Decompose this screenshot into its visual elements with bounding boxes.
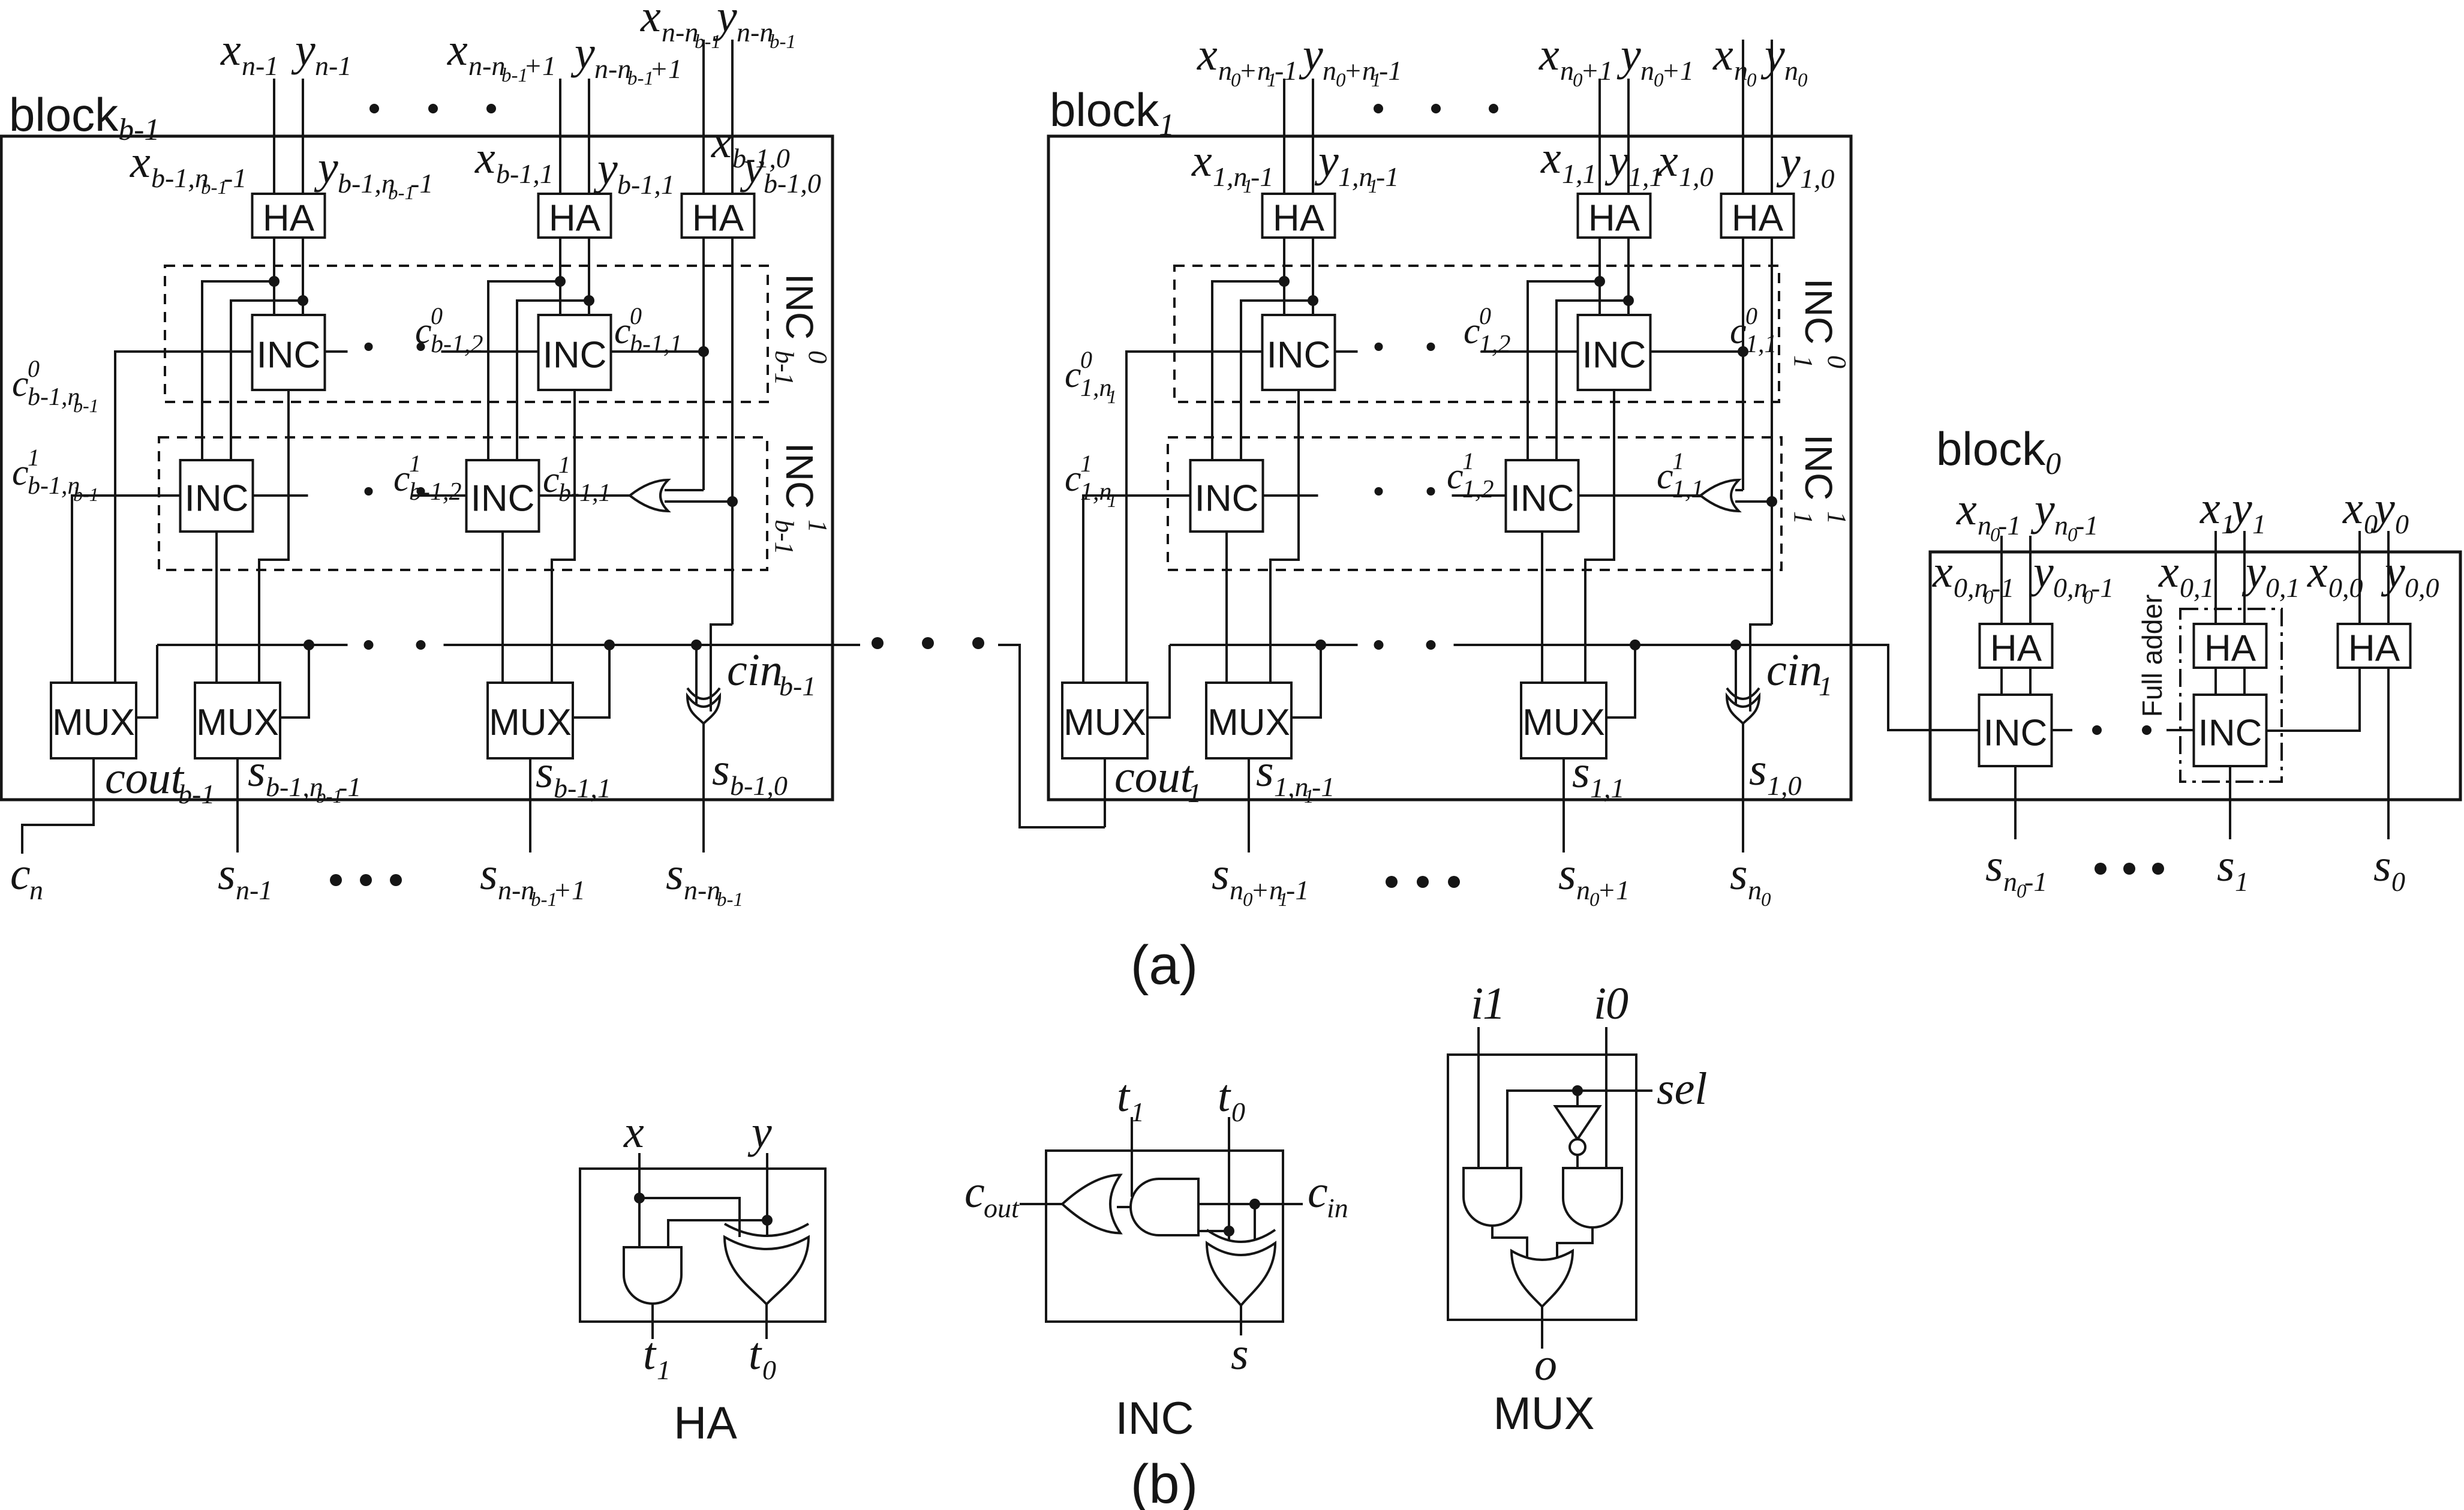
svg-text:s: s: [248, 746, 266, 796]
wire t0 col1 to INC1 block_1: [1241, 301, 1313, 460]
svg-text:t: t: [1117, 1071, 1131, 1121]
svg-text:c: c: [1464, 311, 1480, 352]
svg-text:1: 1: [1789, 355, 1818, 368]
incrementer INC0 col2 block_b-1: [539, 315, 611, 390]
svg-text:y: y: [2029, 547, 2054, 597]
svg-text:HA: HA: [549, 198, 601, 239]
svg-text:b-1,1: b-1,1: [617, 169, 675, 200]
MUX detail box: [1448, 1055, 1636, 1320]
svg-text:0,1: 0,1: [2265, 572, 2300, 603]
svg-text:x: x: [474, 133, 495, 183]
wire s_1 output: [2229, 766, 2231, 839]
wire cin_1 from block_0: [1851, 645, 1979, 730]
wire t0 col2 to INC1 block_1: [1556, 301, 1628, 460]
wire y input col2 block_b-1: [588, 79, 590, 194]
svg-text:1: 1: [1080, 450, 1092, 477]
junction t0 OR input block_b-1: [727, 496, 738, 507]
svg-text:y: y: [1760, 29, 1785, 80]
svg-text:HA: HA: [674, 1398, 737, 1449]
svg-text:c: c: [1730, 311, 1747, 352]
junction t0 col1 block_1: [1308, 295, 1318, 306]
svg-text:s: s: [1985, 840, 2003, 891]
svg-text:n-n: n-n: [684, 875, 720, 905]
wire sel MUX cout block_1: [1147, 645, 1170, 718]
junction t1 col2 block_b-1: [555, 276, 566, 287]
svg-text:-1: -1: [1991, 572, 2014, 603]
svg-text:c: c: [1657, 456, 1673, 497]
svg-text:INC: INC: [1267, 335, 1331, 376]
svg-text:INC: INC: [2198, 713, 2262, 754]
full adder dash-dot box block_0: [2180, 609, 2282, 782]
half adder HA col3 block_1: [1721, 194, 1794, 238]
junction t0 col2 block_b-1: [584, 295, 594, 306]
svg-text:1: 1: [657, 1355, 671, 1385]
svg-text:x: x: [447, 25, 468, 75]
wire x input col2 block_b-1: [559, 79, 561, 194]
svg-text:b-1: b-1: [770, 350, 799, 386]
junction sel MUX bit1 block_b-1: [604, 640, 615, 650]
svg-text:c: c: [12, 364, 29, 404]
svg-text:c: c: [393, 458, 410, 499]
junction cin INC detail: [1249, 1199, 1260, 1209]
half adder HA col2 block_1: [1578, 194, 1651, 238]
svg-text:b-1,2: b-1,2: [409, 478, 462, 506]
wire t0 to AND INC detail: [1198, 1230, 1229, 1232]
svg-text:y: y: [1776, 137, 1801, 188]
svg-text:b-1,n: b-1,n: [266, 771, 323, 802]
svg-text:1,0: 1,0: [1800, 163, 1835, 194]
svg-text:y: y: [747, 1107, 772, 1157]
svg-text:MUX: MUX: [1494, 1388, 1595, 1439]
wire c1 chain OR to INC1 col2 block_b-1: [539, 494, 630, 497]
svg-text:b-1,1: b-1,1: [630, 331, 683, 358]
svg-text:+1: +1: [1661, 55, 1694, 86]
cin bus segment B block_1: [1454, 644, 1852, 646]
svg-text:1,1: 1,1: [1745, 331, 1777, 358]
svg-text:n-n: n-n: [498, 875, 534, 905]
svg-text:y: y: [1314, 136, 1339, 186]
svg-text:0: 0: [431, 302, 443, 329]
svg-text:1: 1: [28, 444, 40, 471]
svg-text:x: x: [2158, 547, 2179, 597]
INC0 row dashed box block_1: [1174, 266, 1779, 402]
label INC0 b-1 rotated: [770, 274, 833, 386]
and gate INC detail: [1131, 1179, 1198, 1235]
svg-text:1,0: 1,0: [1767, 770, 1802, 801]
svg-text:s: s: [1231, 1329, 1249, 1379]
svg-text:0: 0: [2391, 866, 2405, 897]
junction sel MUX high block_1: [1315, 640, 1326, 650]
svg-text:n: n: [2003, 866, 2017, 897]
wire cin to XOR INC detail: [1254, 1204, 1256, 1239]
wire sel MUX cout block_b-1: [136, 645, 157, 718]
svg-text:block1: block1: [1050, 83, 1174, 142]
svg-text:y: y: [2030, 484, 2055, 535]
svg-text:1: 1: [1819, 671, 1832, 701]
svg-text:1,n: 1,n: [1274, 771, 1309, 802]
svg-text:1: 1: [409, 450, 421, 477]
svg-text:s: s: [536, 747, 554, 797]
wire INC1 col2 sum to MUX block_1: [1541, 532, 1543, 683]
svg-text:s: s: [712, 745, 730, 795]
svg-text:1,n: 1,n: [1338, 161, 1373, 192]
wire c1 chain col1-col2 right block_1: [1452, 494, 1506, 497]
svg-text:in: in: [1327, 1193, 1348, 1223]
wire t0 HA1 to INC0 block_1: [1312, 238, 1314, 315]
svg-text:cout: cout: [1114, 752, 1194, 802]
wire x input HA detail: [638, 1153, 641, 1247]
wire s_n0-1 output: [2014, 766, 2017, 839]
wire y input HA detail: [766, 1153, 768, 1237]
wire XOR output s bit0 block_1: [1742, 724, 1744, 852]
svg-text:HA: HA: [1990, 628, 2042, 670]
half adder HA col1 block_0: [1980, 624, 2053, 668]
svg-text:b-1,0: b-1,0: [764, 168, 821, 199]
svg-text:0: 0: [1798, 70, 1808, 91]
svg-text:x: x: [130, 137, 151, 187]
wire x input col2 block_1: [1598, 79, 1601, 194]
svg-text:c: c: [1065, 355, 1081, 395]
half adder HA col1 block_b-1: [253, 194, 325, 238]
wire carry from HA bit0 block_0: [2266, 668, 2360, 731]
svg-text:t: t: [1218, 1071, 1231, 1121]
svg-text:s: s: [1572, 747, 1590, 797]
wire t1 HA-FA to INC block_0: [2214, 668, 2217, 695]
wire o output MUX detail: [1541, 1307, 1543, 1349]
svg-text:1: 1: [1107, 490, 1117, 511]
svg-text:c: c: [1065, 458, 1081, 499]
multiplexer MUX high sum block_1: [1206, 683, 1291, 758]
ellipsis c1 chain block_b-1: [365, 487, 373, 496]
svg-text:cin: cin: [1766, 645, 1822, 695]
incrementer INC full-adder block_0: [2194, 695, 2267, 766]
and gate i1 MUX detail: [1464, 1168, 1521, 1226]
svg-text:1: 1: [1789, 511, 1818, 524]
wire INC1 col2 sum to MUX block_b-1: [501, 532, 504, 683]
svg-text:INC: INC: [471, 478, 535, 520]
ellipsis outputs block_0: [2095, 863, 2107, 875]
svg-text:out: out: [984, 1193, 1020, 1223]
svg-text:i: i: [1471, 978, 1483, 1029]
wire c1 chain cout block_b-1: [72, 496, 181, 683]
wire c0 chain col1-col2 left block_1: [1335, 350, 1358, 353]
svg-text:b-1,1: b-1,1: [558, 479, 611, 507]
wire sel MUX bit1 block_b-1: [573, 645, 609, 718]
svg-text:s: s: [1212, 849, 1230, 899]
multiplexer MUX high sum block_b-1: [195, 683, 280, 758]
svg-text:x: x: [2307, 547, 2328, 597]
svg-text:-1: -1: [338, 771, 361, 802]
svg-text:0: 0: [1747, 70, 1757, 91]
svg-text:sel: sel: [1657, 1064, 1707, 1114]
wire carry chain right block_0: [2166, 729, 2194, 731]
wire x input col3 block_b-1: [702, 40, 705, 194]
wire MUX high sum output block_1: [1248, 758, 1250, 852]
label Full adder rotated: [2137, 595, 2168, 718]
wire y input col1 block_b-1: [302, 79, 304, 194]
svg-text:-1: -1: [1275, 55, 1297, 86]
wire t1 col2 to INC1 block_1: [1528, 281, 1600, 460]
and gate HA detail: [624, 1247, 681, 1304]
svg-text:HA: HA: [2348, 628, 2400, 670]
xor gate s bit0 block_1: [1735, 645, 1737, 704]
svg-text:n: n: [1560, 55, 1574, 86]
svg-text:INC: INC: [1582, 335, 1646, 376]
wire INC0 col1 sum to MUX block_b-1: [259, 390, 289, 683]
svg-text:b-1,2: b-1,2: [431, 331, 483, 358]
svg-text:MUX: MUX: [1207, 702, 1290, 743]
wire cout_b-1 to c_n: [22, 758, 94, 854]
svg-text:1,2: 1,2: [1479, 331, 1511, 358]
svg-text:n: n: [1218, 55, 1232, 86]
svg-text:INC: INC: [1797, 278, 1840, 344]
wire i1 input MUX detail: [1477, 1027, 1480, 1168]
wire OR top input block_1: [1735, 489, 1743, 491]
wire OR bottom input block_1: [1735, 500, 1772, 503]
multiplexer MUX bit1 sum block_1: [1521, 683, 1606, 758]
svg-text:x: x: [220, 25, 241, 75]
wire sel MUX high block_1: [1291, 645, 1321, 718]
wire OR top input block_b-1: [665, 489, 704, 491]
svg-text:b-1: b-1: [779, 671, 816, 701]
svg-text:+1: +1: [650, 53, 682, 84]
svg-text:HA: HA: [2204, 628, 2256, 670]
wire sel MUX high block_b-1: [280, 645, 309, 718]
wire c1 chain OR to INC1 col2 block_1: [1579, 494, 1701, 497]
svg-text:y: y: [291, 25, 315, 75]
wire s_0 output: [2387, 668, 2390, 839]
ellipsis outputs block_b-1: [330, 874, 342, 886]
svg-text:o: o: [1534, 1340, 1557, 1390]
svg-text:n-1: n-1: [242, 50, 278, 81]
and gate i0 MUX detail: [1563, 1168, 1622, 1227]
wire t1 HA2 to INC0 block_1: [1598, 238, 1601, 315]
wire t1 HA1 to INC0 block_1: [1283, 238, 1285, 315]
svg-text:0: 0: [630, 302, 642, 329]
block_1 border: [1048, 136, 1851, 800]
svg-text:i: i: [1594, 978, 1606, 1029]
svg-text:HA: HA: [1732, 198, 1784, 239]
svg-text:n-n: n-n: [468, 50, 505, 81]
svg-text:MUX: MUX: [489, 702, 572, 743]
wire sel MUX detail: [1507, 1091, 1652, 1168]
junction cin XOR tap block_b-1: [691, 640, 702, 650]
svg-text:1,2: 1,2: [1462, 476, 1494, 503]
svg-text:x: x: [1197, 29, 1218, 80]
wire INC0 col2 sum to MUX block_1: [1585, 390, 1614, 683]
cin bus segment B block_b-1: [444, 644, 861, 646]
svg-text:x: x: [1932, 547, 1953, 597]
svg-text:0: 0: [1080, 346, 1092, 373]
svg-text:s: s: [218, 849, 236, 899]
svg-text:0: 0: [1822, 355, 1852, 368]
wire AND2 to OR MUX detail: [1557, 1227, 1592, 1259]
wire c0 chain col2-col3 block_1: [1651, 350, 1744, 353]
multiplexer MUX bit1 sum block_b-1: [488, 683, 573, 758]
svg-text:0: 0: [803, 350, 833, 364]
svg-text:1: 1: [803, 520, 833, 533]
wire c1 chain cout block_1: [1083, 496, 1191, 683]
wire t0 col2 to INC1 block_b-1: [517, 301, 589, 460]
svg-text:b-1: b-1: [770, 31, 796, 53]
svg-text:c: c: [1447, 456, 1464, 497]
wire y to AND HA detail: [668, 1220, 767, 1247]
svg-text:0,0: 0,0: [2328, 572, 2363, 603]
junction t0 col2 block_1: [1623, 295, 1634, 306]
multiplexer MUX cout block_b-1: [51, 683, 136, 758]
half adder HA full-adder block_0: [2194, 624, 2267, 668]
svg-text:y: y: [2381, 547, 2405, 597]
svg-text:n: n: [1640, 55, 1654, 86]
svg-text:0,n: 0,n: [2053, 572, 2088, 603]
wire INC1 col1 sum to MUX block_b-1: [215, 532, 218, 683]
svg-text:1,1: 1,1: [1562, 158, 1597, 189]
svg-text:y: y: [593, 143, 618, 194]
svg-text:HA: HA: [1273, 198, 1325, 239]
wire XOR output s bit0 block_b-1: [702, 724, 705, 852]
svg-text:b-1: b-1: [73, 395, 99, 416]
svg-text:-1: -1: [1251, 161, 1273, 192]
svg-text:c: c: [12, 452, 29, 493]
wire OR bottom input block_b-1: [665, 500, 732, 503]
wire t0 HA2 to INC0 block_b-1: [588, 238, 590, 315]
wire INC1 col1 sum to MUX block_1: [1225, 532, 1228, 683]
svg-text:HA: HA: [692, 198, 744, 239]
not gate MUX detail: [1555, 1106, 1600, 1139]
incrementer INC0 col2 block_1: [1578, 315, 1651, 390]
svg-text:s: s: [2217, 840, 2235, 891]
xor gate INC detail: [1207, 1230, 1275, 1242]
wire y input col2 block_1: [1627, 79, 1630, 194]
svg-text:-1: -1: [410, 168, 433, 199]
junction t1 col1 block_b-1: [269, 276, 280, 287]
multiplexer MUX cout block_1: [1062, 683, 1147, 758]
wire c0 chain col1-col2 right block_b-1: [441, 350, 539, 353]
wire MUX bit1 sum output block_b-1: [529, 758, 531, 852]
wire t0 HA-FA to INC block_0: [2243, 668, 2246, 695]
svg-text:0: 0: [762, 1355, 776, 1385]
svg-text:n-n: n-n: [662, 17, 698, 47]
svg-text:x: x: [1191, 136, 1212, 186]
svg-text:c: c: [543, 460, 560, 500]
svg-text:x: x: [623, 1107, 644, 1157]
wire x input col1 block_0: [2000, 536, 2003, 624]
ellipsis top block_1: [1374, 104, 1383, 113]
wire c0 chain cout block_1: [1126, 352, 1263, 683]
wire t1 HA3 down block_1: [1742, 238, 1744, 490]
svg-text:0: 0: [1761, 889, 1771, 911]
svg-text:+1: +1: [553, 875, 585, 905]
svg-text:1: 1: [2252, 509, 2266, 539]
svg-text:0,n: 0,n: [1954, 572, 1988, 603]
svg-text:+1: +1: [524, 50, 556, 81]
svg-text:n: n: [1230, 875, 1243, 905]
svg-text:-1: -1: [2075, 510, 2098, 541]
svg-text:t: t: [643, 1329, 657, 1379]
wire cout_1 to cin_b-1 bus: [998, 645, 1105, 827]
svg-text:Full adder: Full adder: [2137, 595, 2168, 718]
svg-text:b-1: b-1: [770, 520, 799, 555]
svg-text:1: 1: [2235, 866, 2249, 897]
svg-text:INC: INC: [185, 478, 249, 520]
svg-text:x: x: [2199, 483, 2220, 533]
wire t1 input INC detail: [1131, 1117, 1133, 1197]
svg-text:-1: -1: [224, 163, 247, 193]
svg-text:b-1,n: b-1,n: [28, 472, 80, 500]
svg-text:1: 1: [1483, 978, 1506, 1029]
svg-text:INC: INC: [257, 335, 321, 376]
svg-text:n: n: [1748, 875, 1762, 905]
svg-text:c: c: [1308, 1167, 1328, 1217]
svg-text:b-1,n: b-1,n: [28, 383, 80, 411]
wire t0 jog into XOR block_1: [1750, 625, 1772, 712]
half adder HA bit0 block_0: [2338, 624, 2411, 668]
svg-text:s: s: [1730, 849, 1748, 899]
svg-text:HA: HA: [263, 198, 315, 239]
wire t0 HA1 to INC block_0: [2029, 668, 2032, 695]
svg-text:0,1: 0,1: [2180, 572, 2214, 603]
wire t0 input INC detail: [1228, 1117, 1230, 1239]
wire sel MUX bit1 block_1: [1606, 645, 1635, 718]
svg-text:1: 1: [558, 451, 570, 478]
svg-text:s: s: [1558, 849, 1576, 899]
wire AND1 to OR MUX detail: [1492, 1226, 1527, 1259]
wire AND to OR INC detail: [1117, 1206, 1131, 1208]
svg-text:n-n: n-n: [594, 53, 631, 84]
svg-text:n: n: [29, 875, 43, 905]
wire MUX bit1 sum output block_1: [1562, 758, 1565, 852]
svg-text:y: y: [713, 0, 737, 41]
incrementer INC col1 block_0: [1979, 695, 2052, 766]
svg-text:1: 1: [1672, 448, 1684, 475]
svg-text:s: s: [1749, 745, 1767, 795]
svg-text:b-1: b-1: [717, 889, 743, 911]
wire c0 chain col1-col2 right block_1: [1481, 350, 1578, 353]
INC1 row dashed box block_b-1: [159, 437, 767, 570]
wire sel to NOT MUX detail: [1576, 1091, 1579, 1106]
wire t1 HA2 to INC0 block_b-1: [559, 238, 561, 315]
svg-text:+1: +1: [1580, 55, 1613, 86]
svg-text:MUX: MUX: [196, 702, 279, 743]
wire s output INC detail: [1240, 1305, 1242, 1335]
wire t1 HA1 to INC block_0: [2000, 668, 2003, 695]
junction sel MUX detail: [1572, 1085, 1583, 1096]
svg-text:b-1: b-1: [73, 484, 99, 505]
svg-text:INC: INC: [778, 443, 821, 509]
ellipsis c1 chain block_1: [1375, 487, 1383, 496]
svg-text:1,n: 1,n: [1213, 161, 1248, 192]
wire t1 col1 to INC1 block_1: [1212, 281, 1284, 460]
or gate MUX detail: [1512, 1251, 1573, 1307]
svg-text:cin: cin: [727, 645, 783, 695]
svg-text:n: n: [1978, 510, 1991, 541]
ellipsis cin bus block_1: [1374, 640, 1384, 650]
wire c0 chain col2-col3 block_b-1: [611, 350, 704, 353]
wire t1 col2 to INC1 block_b-1: [488, 281, 560, 460]
svg-text:b-1,0: b-1,0: [730, 770, 788, 801]
INC0 row dashed box block_b-1: [165, 266, 768, 402]
label INC1 1 rotated: [1789, 434, 1852, 524]
svg-text:n-n: n-n: [737, 17, 773, 47]
wire t0 HA2 to INC0 block_1: [1627, 238, 1630, 315]
wire t0 HA1 to INC0 block_b-1: [302, 238, 304, 315]
block_0 border: [1930, 552, 2460, 800]
wire y input col1 block_1: [1312, 79, 1314, 194]
junction t1 col2 block_1: [1594, 276, 1605, 287]
or gate carry bit0 block_1: [1700, 480, 1739, 511]
svg-text:0: 0: [1479, 302, 1491, 329]
svg-text:n: n: [1784, 55, 1798, 86]
